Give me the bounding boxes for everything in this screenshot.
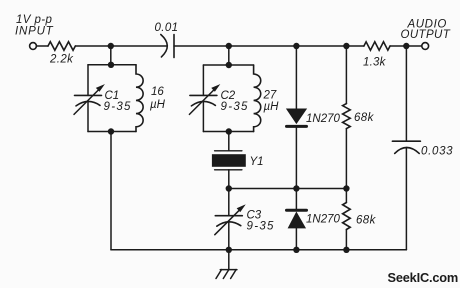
wire (bottom rail) bbox=[111, 249, 406, 251]
wire (tank2 bottom rail) bbox=[203, 131, 253, 133]
svg-text:9-35: 9-35 bbox=[247, 221, 275, 233]
svg-text:27: 27 bbox=[263, 90, 277, 102]
crystal Y1 bbox=[212, 151, 264, 170]
capacitor C2 9-35 (variable) bbox=[189, 85, 248, 114]
ground bbox=[216, 250, 237, 279]
input terminal bbox=[30, 43, 37, 50]
resistor 68k (upper) bbox=[343, 46, 375, 189]
wire bbox=[228, 222, 230, 250]
junction dot bbox=[226, 62, 232, 68]
resistor 68k (lower) bbox=[343, 189, 377, 250]
junction dot bbox=[226, 43, 232, 49]
svg-text:9-35: 9-35 bbox=[104, 101, 132, 113]
wire bbox=[406, 45, 421, 47]
junction dot bbox=[343, 247, 349, 253]
svg-text:16: 16 bbox=[151, 86, 164, 98]
junction dot bbox=[343, 43, 349, 49]
junction dot bbox=[343, 185, 349, 191]
wire bbox=[296, 45, 346, 47]
capacitor 0.033 bbox=[392, 46, 453, 250]
svg-text:INPUT: INPUT bbox=[15, 26, 54, 38]
svg-text:68k: 68k bbox=[356, 215, 377, 227]
svg-text:µH: µH bbox=[150, 99, 166, 111]
resistor 2.2k bbox=[48, 42, 75, 66]
wire bbox=[229, 45, 297, 47]
svg-text:1N270: 1N270 bbox=[306, 113, 340, 125]
svg-text:0.01: 0.01 bbox=[155, 22, 179, 34]
wire (tank1 top rail) bbox=[88, 64, 136, 66]
junction dot bbox=[293, 43, 299, 49]
node: 1V p-p INPUT label bbox=[15, 14, 54, 38]
svg-text:µH: µH bbox=[264, 101, 280, 113]
svg-text:1V p-p: 1V p-p bbox=[16, 14, 52, 26]
svg-text:1N270: 1N270 bbox=[306, 214, 340, 226]
wire bbox=[110, 132, 112, 250]
capacitor C1 9-35 (variable) bbox=[74, 85, 132, 114]
wire (tank1 left edge upper) bbox=[87, 65, 89, 96]
node: AUDIO OUTPUT label bbox=[401, 19, 451, 42]
diode D1 1N270 bbox=[287, 46, 341, 189]
inductor L1 16uH bbox=[136, 65, 166, 132]
wire bbox=[228, 189, 230, 216]
wire (tank2 left edge lower) bbox=[202, 101, 204, 131]
wire (mid rail) bbox=[229, 188, 347, 190]
junction dot bbox=[403, 43, 409, 49]
svg-text:OUTPUT: OUTPUT bbox=[401, 29, 451, 41]
wire bbox=[37, 45, 48, 47]
junction dot bbox=[108, 62, 114, 68]
junction dot bbox=[226, 247, 232, 253]
svg-text:Y1: Y1 bbox=[250, 156, 264, 168]
wire bbox=[228, 132, 230, 151]
wire bbox=[110, 46, 112, 65]
junction dot bbox=[226, 185, 232, 191]
wire (tank1 left edge lower) bbox=[87, 101, 89, 131]
junction dot bbox=[293, 185, 299, 191]
capacitor C 0.01 bbox=[155, 22, 179, 58]
output terminal bbox=[422, 43, 429, 50]
diode D2 1N270 bbox=[287, 189, 341, 250]
svg-text:SeekIC.com: SeekIC.com bbox=[388, 270, 459, 285]
resistor 1.3k bbox=[346, 42, 406, 69]
inductor L2 27uH bbox=[254, 65, 280, 132]
junction dot bbox=[293, 247, 299, 253]
wire bbox=[174, 45, 229, 47]
svg-text:2.2k: 2.2k bbox=[49, 54, 74, 66]
junction dot bbox=[108, 128, 114, 134]
wire bbox=[228, 46, 230, 65]
wire bbox=[75, 45, 167, 47]
wire (tank2 top rail) bbox=[203, 64, 253, 66]
wire (tank1 bottom rail) bbox=[88, 131, 136, 133]
svg-text:1.3k: 1.3k bbox=[363, 57, 387, 69]
svg-text:0.033: 0.033 bbox=[421, 146, 453, 158]
junction dot bbox=[226, 128, 232, 134]
junction dot bbox=[108, 43, 114, 49]
wire bbox=[228, 170, 230, 189]
wire (tank2 left edge upper) bbox=[202, 65, 204, 95]
capacitor C3 9-35 (variable) bbox=[215, 206, 275, 235]
svg-text:68k: 68k bbox=[354, 112, 375, 124]
svg-text:9-35: 9-35 bbox=[221, 101, 249, 113]
